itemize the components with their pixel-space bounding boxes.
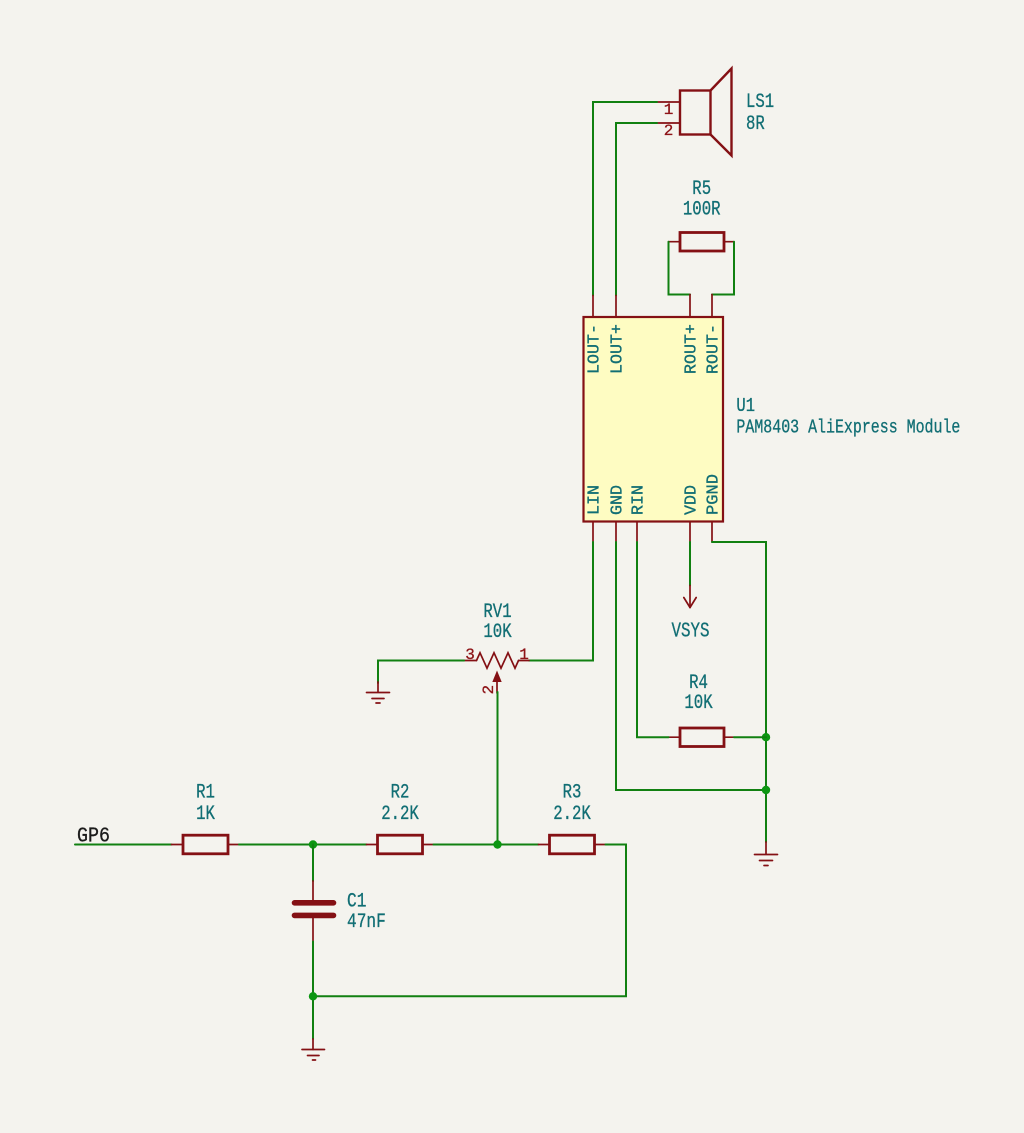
svg-text:RIN: RIN — [630, 485, 649, 515]
svg-text:U1: U1 — [736, 395, 755, 417]
svg-text:VDD: VDD — [683, 485, 702, 515]
ground symbol bottom — [302, 1039, 325, 1060]
R1 right pin stub — [228, 844, 239, 846]
svg-text:R2: R2 — [391, 782, 410, 805]
svg-text:100R: 100R — [683, 199, 721, 222]
resistor R1 — [183, 835, 228, 854]
R3 right pin stub — [595, 844, 606, 846]
wire R5 left to ROUT+ — [669, 242, 691, 295]
svg-text:LOUT-: LOUT- — [586, 324, 605, 374]
wire RV1 pin3 to ground — [378, 661, 464, 684]
wire LIN down to RV1 — [529, 542, 593, 661]
resistor R2 — [378, 835, 423, 854]
pin VDD stub — [689, 522, 691, 543]
R3 left pin stub — [539, 844, 550, 846]
junction at rail and R4 — [762, 733, 770, 741]
svg-text:10K: 10K — [684, 692, 712, 715]
RV1 pin 3 stub — [464, 660, 477, 662]
wire RV1 wiper down — [497, 692, 499, 845]
svg-text:2: 2 — [480, 685, 498, 695]
ground symbol RV1 — [367, 682, 390, 703]
LS1 pin 2 stub — [657, 122, 680, 124]
svg-text:GND: GND — [609, 485, 628, 515]
wire R3 feedback loop — [313, 845, 626, 997]
U1 chip body — [584, 317, 724, 522]
svg-text:R1: R1 — [196, 782, 215, 805]
svg-text:ROUT-: ROUT- — [705, 324, 724, 374]
svg-text:1: 1 — [519, 646, 529, 664]
pin ROUT+ stub — [689, 295, 691, 318]
svg-text:2: 2 — [664, 122, 674, 140]
svg-text:LIN: LIN — [586, 485, 605, 515]
svg-text:VSYS: VSYS — [672, 621, 710, 644]
svg-text:8R: 8R — [746, 113, 765, 136]
capacitor C1 top wire — [312, 845, 314, 882]
svg-text:2.2K: 2.2K — [381, 803, 419, 826]
svg-text:10K: 10K — [483, 621, 511, 644]
RV1 wiper arrow — [492, 671, 501, 683]
pin ROUT- stub — [711, 295, 713, 318]
svg-text:R3: R3 — [563, 782, 582, 805]
svg-text:47nF: 47nF — [347, 911, 386, 934]
pin PGND stub — [711, 522, 713, 543]
junction at C1 bottom node — [309, 992, 317, 1000]
R5 left pin stub — [669, 241, 681, 243]
svg-text:PAM8403 AliExpress Module: PAM8403 AliExpress Module — [736, 417, 960, 439]
C1 top pin stub — [312, 881, 314, 900]
pin RIN stub — [636, 522, 638, 543]
ground symbol right — [755, 842, 778, 866]
potentiometer RV1 zigzag — [477, 653, 519, 668]
wire PGND to right rail — [712, 542, 766, 842]
wire R5 right to ROUT- — [712, 242, 734, 295]
pin GND stub — [615, 522, 617, 543]
R2 right pin stub — [423, 844, 434, 846]
resistor R4 — [680, 728, 724, 747]
RV1 wiper stem — [496, 682, 498, 693]
R2 left pin stub — [367, 844, 378, 846]
wire VDD down — [689, 542, 691, 586]
junction at RV1 wiper node — [493, 840, 501, 848]
junction at C1 top node — [309, 840, 317, 848]
resistor R5 — [680, 233, 724, 252]
wire R2 to R3 — [434, 844, 539, 846]
wire R4 right to rail — [734, 736, 766, 738]
svg-text:LOUT+: LOUT+ — [609, 324, 628, 374]
R1 left pin stub — [172, 844, 184, 846]
wire R1 to R2 — [239, 844, 367, 846]
capacitor C1 bottom wire — [312, 942, 314, 1040]
svg-text:LS1: LS1 — [746, 91, 774, 114]
R4 left pin stub — [669, 736, 681, 738]
RV1 pin 1 stub — [519, 660, 530, 662]
pin LOUT+ stub — [615, 296, 617, 318]
svg-text:1: 1 — [664, 101, 674, 119]
VSYS power arrow — [684, 586, 696, 608]
wire GND down and right — [616, 542, 766, 790]
pin LOUT- stub — [592, 296, 594, 318]
junction at rail and GND wire — [762, 786, 770, 794]
wire LOUT- to speaker pin1 — [593, 102, 657, 296]
svg-text:1K: 1K — [196, 803, 215, 826]
svg-text:PGND: PGND — [705, 474, 724, 515]
wire LOUT+ to speaker pin2 — [616, 123, 657, 296]
R5 right pin stub — [724, 241, 734, 243]
svg-text:3: 3 — [465, 646, 475, 664]
pin LIN stub — [592, 522, 594, 543]
svg-text:ROUT+: ROUT+ — [683, 324, 702, 374]
speaker LS1 — [680, 69, 732, 156]
resistor R3 — [550, 835, 595, 854]
capacitor C1 — [295, 903, 334, 916]
R4 right pin stub — [724, 736, 734, 738]
svg-text:2.2K: 2.2K — [553, 803, 591, 826]
wire RIN to R4 — [637, 542, 669, 737]
C1 bottom pin stub — [312, 918, 314, 942]
LS1 pin 1 stub — [657, 101, 680, 103]
wire GP6 to R1 — [75, 844, 172, 846]
